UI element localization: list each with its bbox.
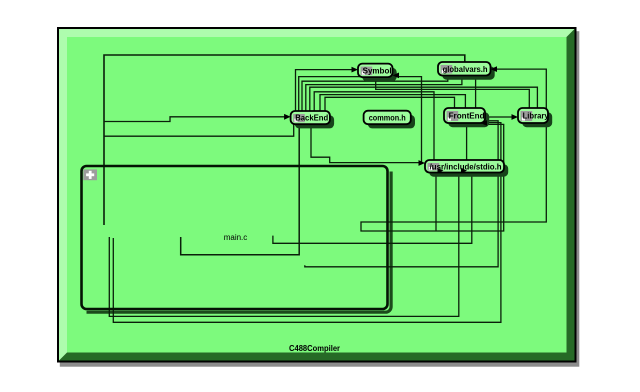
svg-text:globalvars.h: globalvars.h xyxy=(443,64,488,74)
svg-text:Symbol: Symbol xyxy=(363,65,392,75)
svg-text:FrontEnd: FrontEnd xyxy=(449,111,485,121)
svg-text:common.h: common.h xyxy=(369,112,406,122)
svg-text:main.c: main.c xyxy=(224,233,248,242)
svg-text:BackEnd: BackEnd xyxy=(295,113,328,123)
svg-text:C488Compiler: C488Compiler xyxy=(289,343,341,353)
svg-text:Library: Library xyxy=(523,111,549,121)
